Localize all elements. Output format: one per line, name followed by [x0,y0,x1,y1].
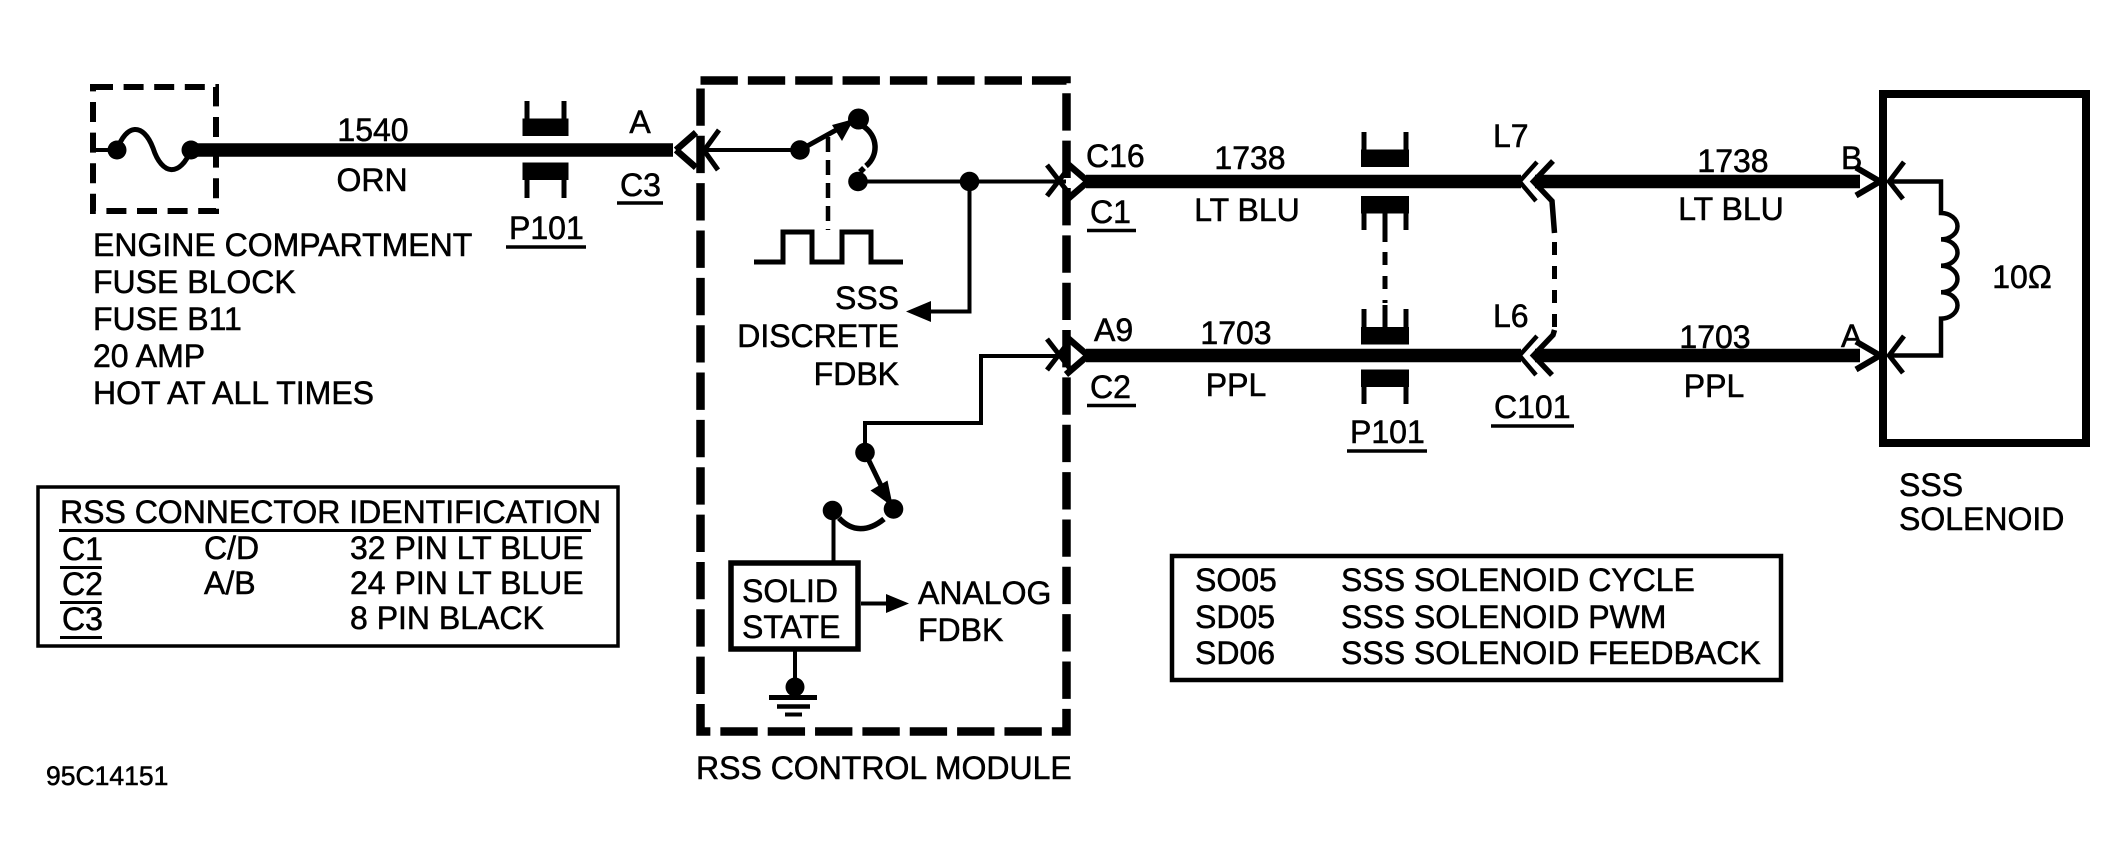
label ANALOG FDBK [918,575,1051,648]
arrow to ANALOG FDBK [861,594,909,613]
svg-text:1738: 1738 [1697,143,1768,179]
switch SW1 blade [800,119,856,150]
switch SW2 left node [823,501,843,521]
svg-text:PPL: PPL [1206,367,1266,403]
dashed link C101 between L7 and L6 [1552,242,1557,330]
label SSS SOLENOID [1899,467,2064,537]
wire solid state to ground [793,651,797,682]
svg-text:C2: C2 [1090,369,1131,405]
signal legend box [1172,556,1781,680]
svg-text:L6: L6 [1493,298,1529,334]
connector C16/C1 exit chevron [1066,163,1088,201]
svg-text:L7: L7 [1493,118,1529,154]
wire 1703 PPL right segment (thick) [1535,349,1860,363]
svg-text:ENGINE COMPARTMENT: ENGINE COMPARTMENT [93,227,472,263]
svg-text:C101: C101 [1494,389,1571,425]
switch SW2 contact node [884,499,904,519]
connector P101 on wire 1703 [1361,305,1409,404]
fuse block box (dashed) [93,87,216,211]
svg-text:1540: 1540 [337,112,408,148]
svg-text:P101: P101 [509,210,584,246]
solenoid coil L1 [1892,182,1958,356]
ground symbol [769,698,817,715]
fuse block caption text [93,227,472,411]
svg-text:1703: 1703 [1200,315,1271,351]
svg-text:C16: C16 [1086,138,1145,174]
svg-text:FDBK: FDBK [814,356,899,392]
terminal B chevron (wire end) [1856,168,1880,196]
svg-text:STATE: STATE [742,609,840,645]
svg-text:LT BLU: LT BLU [1194,192,1300,228]
wire 1738 LT BLU right segment (thick) [1535,175,1860,189]
svg-text:FUSE B11: FUSE B11 [93,301,242,337]
svg-text:C1: C1 [62,531,103,567]
svg-text:SOLENOID: SOLENOID [1899,501,2064,537]
terminal A ticks [1888,336,1904,373]
svg-text:A: A [629,104,651,140]
switch SW1 pivot node [790,140,810,160]
svg-text:P101: P101 [1350,414,1425,450]
connector L6 left chevron [1520,336,1538,375]
svg-text:SSS: SSS [1899,467,1963,503]
connector L7 left chevron [1520,162,1538,201]
switch SW2 blade arrowhead [871,481,894,508]
svg-text:HOT AT ALL TIMES: HOT AT ALL TIMES [93,375,374,411]
legend row SO05 [1195,562,1695,598]
connector P101 on wire 1540 [523,101,569,198]
connector L7 right chevron [1534,161,1555,233]
RSS control module box (dashed) [701,81,1067,732]
wire (thin) from C3 entry to switch pivot [701,148,795,152]
svg-text:C1: C1 [1090,194,1131,230]
switch SW1 lower contact node [848,172,868,192]
dashed link P101 between crossings [1383,252,1388,303]
svg-text:ORN: ORN [336,162,407,198]
wire 1703 PPL left segment (thick) [1086,349,1521,363]
wire (thin) switch to C16 exit [858,180,1066,184]
svg-text:RSS CONTROL MODULE: RSS CONTROL MODULE [696,750,1072,786]
svg-text:SSS: SSS [835,280,899,316]
switch SW2 blade [865,453,889,503]
fuse B11 element [93,129,201,169]
label SSS DISCRETE FDBK [737,280,899,392]
table row C2 [60,565,584,603]
switch SW1 actuator dashed link [826,137,831,230]
switch SW1 swing arc [860,126,875,172]
svg-text:SSS SOLENOID PWM: SSS SOLENOID PWM [1341,599,1666,635]
svg-text:PPL: PPL [1684,368,1744,404]
switch SW2 upper node [855,443,875,463]
arrowhead SSS DISCRETE FDBK [906,301,931,322]
svg-text:C/D: C/D [204,530,259,566]
solid state box U1 [731,563,858,649]
svg-text:RSS CONNECTOR IDENTIFICATION: RSS CONNECTOR IDENTIFICATION [60,494,601,530]
connector L6 right chevron [1534,330,1555,375]
connector A9/C2 exit chevron [1066,337,1088,375]
svg-text:8 PIN BLACK: 8 PIN BLACK [350,600,544,636]
table row C1 [60,530,584,568]
wire (thin) A9 internal ladder [865,356,1066,444]
legend row SD05 [1195,599,1666,635]
switch SW1 blade arrowhead [832,119,854,141]
PWM square wave symbol [754,232,903,262]
connector P101 on wire 1738 [1361,132,1409,242]
svg-text:95C14151: 95C14151 [46,761,168,791]
svg-text:A/B: A/B [204,565,256,601]
svg-text:20 AMP: 20 AMP [93,338,205,374]
ground node [786,678,805,697]
svg-text:C3: C3 [62,601,103,637]
RSS connector identification table [38,487,618,646]
svg-text:32 PIN LT BLUE: 32 PIN LT BLUE [350,530,584,566]
switch SW1 upper contact node [848,109,869,130]
junction node [960,172,980,192]
svg-text:SOLID: SOLID [742,573,838,609]
wire to SSS DISCRETE FDBK arrow [928,182,970,312]
svg-text:B: B [1841,140,1862,176]
connector ticks at C16 exit [1047,165,1071,196]
switch SW2 swing arc [839,518,884,529]
svg-text:24 PIN LT BLUE: 24 PIN LT BLUE [350,565,584,601]
svg-text:SSS SOLENOID FEEDBACK: SSS SOLENOID FEEDBACK [1341,635,1761,671]
svg-text:DISCRETE: DISCRETE [737,318,899,354]
wire SW2 to solid state box [832,514,836,561]
terminal B ticks [1888,162,1904,199]
connector C3 pin A entry (wire end chevron) [676,133,696,168]
connector ticks at module left edge [703,130,719,170]
terminal A chevron (wire end) [1856,342,1880,370]
table row C3 [60,600,544,638]
svg-text:FDBK: FDBK [918,612,1003,648]
svg-text:LT BLU: LT BLU [1678,191,1784,227]
svg-text:A: A [1841,318,1863,354]
svg-text:C3: C3 [620,167,661,203]
svg-text:ANALOG: ANALOG [918,575,1051,611]
svg-text:A9: A9 [1094,312,1133,348]
SSS solenoid box [1883,94,2086,443]
svg-text:SSS SOLENOID CYCLE: SSS SOLENOID CYCLE [1341,562,1695,598]
svg-text:SD05: SD05 [1195,599,1275,635]
svg-text:10Ω: 10Ω [1992,259,2052,295]
svg-text:FUSE BLOCK: FUSE BLOCK [93,264,296,300]
svg-text:SD06: SD06 [1195,635,1275,671]
svg-text:C2: C2 [62,566,103,602]
svg-text:1738: 1738 [1214,140,1285,176]
wire 1738 LT BLU left segment (thick) [1086,175,1521,189]
wire 1540 ORN (thick) [196,143,673,157]
svg-text:1703: 1703 [1679,319,1750,355]
svg-text:SO05: SO05 [1195,562,1277,598]
legend row SD06 [1195,635,1761,671]
connector ticks at A9 exit [1047,339,1071,370]
